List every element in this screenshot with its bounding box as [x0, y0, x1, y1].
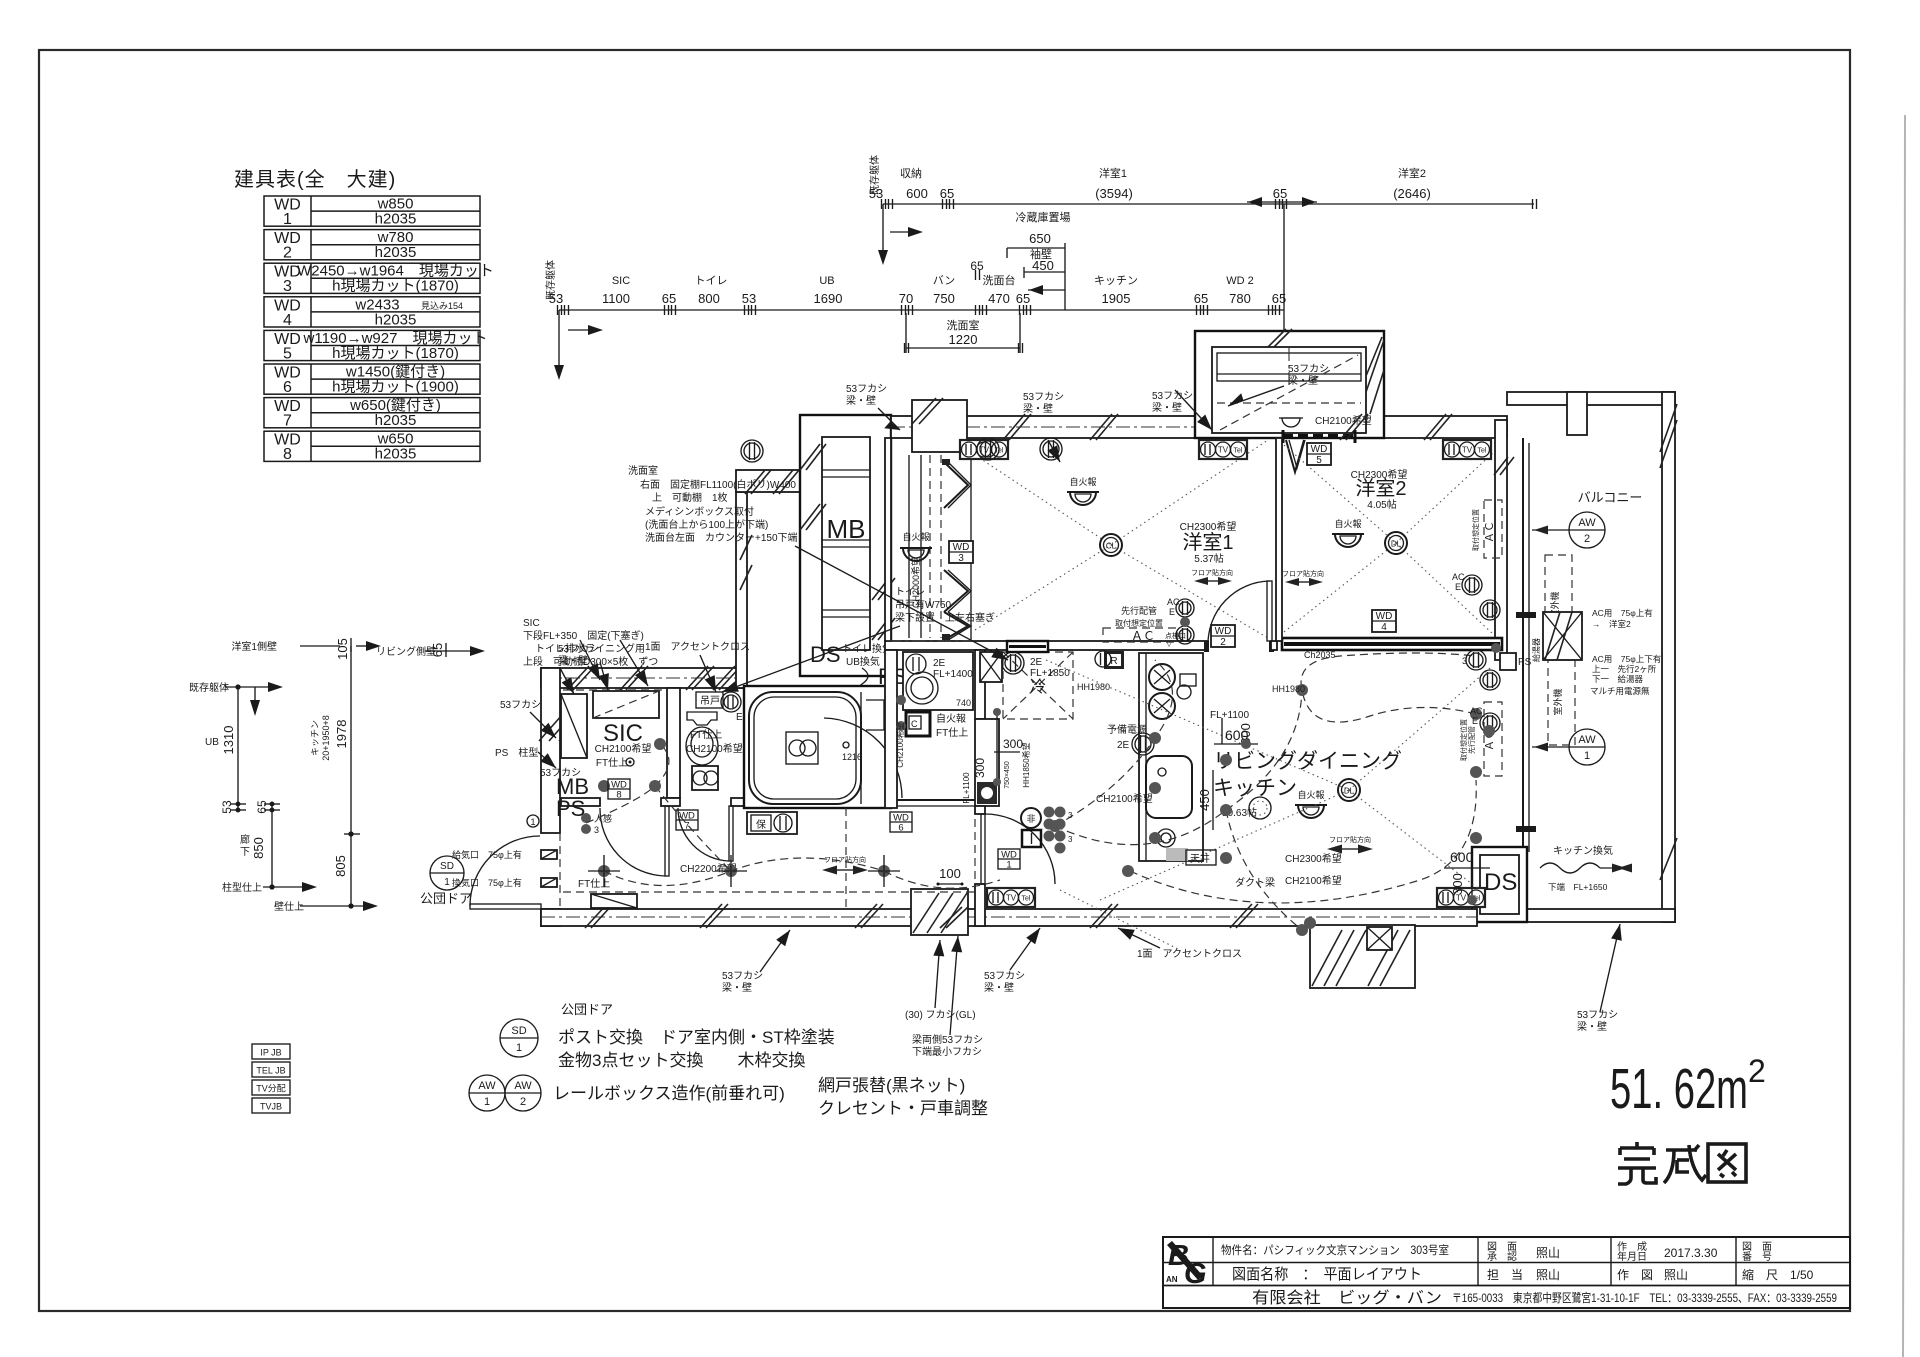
svg-text:〒165-0033 東京都中野区鷺宮1-31-10-1F T: 〒165-0033 東京都中野区鷺宮1-31-10-1F TEL：03-3339… — [1452, 1290, 1837, 1305]
svg-text:予備電源: 予備電源 — [1107, 723, 1147, 736]
svg-text:53フカシ: 53フカシ — [846, 383, 887, 395]
arrow to balcony bottom wall — [1600, 924, 1620, 1012]
svg-text:WD: WD — [953, 542, 970, 553]
WD8 label — [608, 779, 630, 799]
arrow to bump top — [1228, 386, 1284, 406]
svg-text:600: 600 — [906, 186, 928, 201]
arrow — [538, 752, 556, 768]
svg-text:洗面台左面 カウンター+150下端: 洗面台左面 カウンター+150下端 — [645, 531, 798, 544]
svg-text:レールボックス造作(前垂れ可): レールボックス造作(前垂れ可) — [553, 1084, 785, 1103]
svg-text:h2035: h2035 — [375, 446, 417, 463]
svg-text:h2035: h2035 — [375, 244, 417, 261]
svg-text:1216: 1216 — [842, 752, 862, 762]
svg-text:ポスト交換 ドア室内側・ST枠塗装: ポスト交換 ドア室内側・ST枠塗装 — [558, 1027, 835, 1047]
fire alarm — [1335, 534, 1361, 547]
SIC south wall segments — [561, 798, 600, 806]
svg-text:C: C — [911, 719, 918, 729]
svg-text:DL: DL — [1344, 787, 1355, 796]
bath counter/door side — [860, 692, 862, 804]
svg-text:2E: 2E — [1030, 657, 1043, 668]
svg-text:物件名：パシフィック文京マンション 303号室: 物件名：パシフィック文京マンション 303号室 — [1221, 1243, 1449, 1257]
svg-text:3: 3 — [1068, 811, 1073, 820]
leader to toilet hanging door — [722, 626, 900, 692]
svg-text:65: 65 — [940, 186, 954, 201]
svg-text:下一 給湯器: 下一 給湯器 — [1592, 674, 1644, 684]
svg-text:担 当: 担 当 — [1487, 1268, 1523, 1282]
svg-text:FT仕上: FT仕上 — [578, 877, 610, 890]
entry step dashes — [559, 833, 561, 909]
outlet symbol — [977, 438, 999, 460]
svg-text:WD: WD — [1376, 611, 1393, 622]
arrow to bottom wall — [1118, 928, 1160, 948]
svg-text:メディシンボックス取付: メディシンボックス取付 — [645, 505, 754, 518]
svg-text:65: 65 — [1272, 291, 1286, 306]
svg-text:70: 70 — [899, 291, 913, 306]
svg-text:TV: TV — [1462, 446, 1473, 455]
svg-text:梁下設置 上左右塞ぎ: 梁下設置 上左右塞ぎ — [895, 611, 995, 624]
svg-text:保: 保 — [756, 818, 766, 831]
svg-text:バルコニー: バルコニー — [1578, 490, 1643, 505]
svg-text:5.37帖: 5.37帖 — [1194, 552, 1223, 565]
svg-text:AW: AW — [514, 1080, 532, 1092]
svg-text:AC用 75φ上下有: AC用 75φ上下有 — [1592, 654, 1661, 664]
svg-text:450: 450 — [1032, 258, 1054, 273]
AC dashed rect LDK east — [1484, 702, 1502, 776]
outdoor unit dashed boxes — [1545, 555, 1572, 655]
arrow — [1010, 928, 1040, 970]
kitchen lower cabinet at washroom east — [975, 719, 999, 806]
svg-text:公団ドア: 公団ドア — [561, 1002, 613, 1017]
svg-text:AW: AW — [478, 1080, 496, 1092]
outlet symbol — [1176, 626, 1194, 644]
svg-text:65: 65 — [662, 291, 676, 306]
svg-text:TV: TV — [1006, 894, 1017, 903]
svg-text:300: 300 — [1003, 737, 1023, 751]
svg-text:5: 5 — [283, 345, 292, 362]
outlet symbol — [741, 440, 763, 462]
fire alarm — [1070, 492, 1096, 505]
svg-text:65: 65 — [430, 643, 445, 657]
svg-text:E: E — [1472, 716, 1478, 726]
svg-text:TEL JB: TEL JB — [256, 1066, 285, 1076]
svg-text:梁・壁: 梁・壁 — [1152, 401, 1182, 414]
UB door arc into washroom — [824, 718, 902, 798]
balcony top wall — [1507, 392, 1675, 405]
svg-text:AC用 75φ上有: AC用 75φ上有 — [1592, 608, 1653, 618]
svg-text:吊戸有W750: 吊戸有W750 — [895, 598, 952, 611]
svg-text:天井: 天井 — [1190, 852, 1210, 865]
svg-text:7: 7 — [283, 413, 292, 430]
svg-text:梁・壁: 梁・壁 — [722, 981, 752, 994]
svg-text:照山: 照山 — [1536, 1268, 1560, 1282]
yoshitsu1 dotted diagonals — [975, 455, 1111, 545]
svg-text:53フカシ: 53フカシ — [1023, 391, 1064, 403]
svg-text:洗面室: 洗面室 — [628, 464, 658, 477]
svg-text:Ch2035: Ch2035 — [1304, 650, 1336, 660]
svg-text:リビング側壁: リビング側壁 — [376, 645, 436, 658]
svg-text:E: E — [1169, 607, 1175, 617]
svg-text:フロア貼方向: フロア貼方向 — [1329, 835, 1371, 844]
svg-text:FT仕上: FT仕上 — [936, 726, 968, 739]
svg-text:ダクト梁: ダクト梁 — [1235, 876, 1275, 889]
leader to washroom — [795, 546, 1008, 660]
ceiling light CL — [1100, 534, 1122, 556]
svg-text:1100: 1100 — [602, 291, 630, 306]
svg-text:2E: 2E — [1117, 740, 1130, 751]
svg-text:600: 600 — [1450, 849, 1474, 865]
svg-text:洋室1: 洋室1 — [1099, 166, 1127, 180]
WD5 folding door (V symbol) — [1286, 440, 1304, 472]
svg-text:梁・壁: 梁・壁 — [984, 981, 1014, 994]
SIC closet shelf — [593, 691, 659, 718]
svg-text:金物3点セット交換 木枠交換: 金物3点セット交換 木枠交換 — [558, 1051, 805, 1070]
svg-text:給気口 75φ上有: 給気口 75φ上有 — [452, 849, 522, 860]
svg-text:AN: AN — [1166, 1275, 1178, 1284]
kitchen counter — [1139, 653, 1203, 861]
svg-text:承 認: 承 認 — [1487, 1250, 1517, 1263]
divider wall yoshitsu1/yoshitsu2 — [1276, 438, 1282, 641]
svg-text:4: 4 — [1381, 622, 1387, 633]
washbasin counter — [903, 652, 973, 710]
svg-text:h現場カット(1870): h現場カット(1870) — [332, 345, 459, 362]
svg-text:UB: UB — [205, 737, 219, 748]
svg-text:自火報: 自火報 — [936, 712, 966, 725]
R box — [1104, 651, 1124, 669]
svg-text:HH1980: HH1980 — [1077, 682, 1110, 692]
TV/Tel outlet box LDK bottom left — [987, 888, 1035, 907]
svg-text:1690: 1690 — [814, 291, 843, 306]
svg-text:IP JB: IP JB — [260, 1048, 281, 1058]
人感 sensor dots — [581, 813, 591, 823]
svg-text:53フカシ: 53フカシ — [1152, 390, 1193, 402]
JB boxes — [252, 1044, 290, 1059]
MB meter box shaft — [800, 415, 891, 676]
svg-text:3: 3 — [594, 825, 599, 835]
WD5 opening dashed bold — [1283, 434, 1355, 438]
svg-text:WD: WD — [1215, 626, 1232, 637]
WD7 door — [729, 806, 733, 861]
svg-text:SD: SD — [511, 1025, 526, 1037]
svg-text:AC: AC — [1452, 572, 1465, 582]
svg-text:下端 FL+1650: 下端 FL+1650 — [1548, 882, 1608, 892]
svg-text:65: 65 — [255, 800, 269, 814]
svg-text:洋室1側壁: 洋室1側壁 — [231, 640, 277, 653]
svg-text:2: 2 — [1220, 637, 1226, 648]
TV/Tel outlet box LDK bottom right — [1437, 888, 1485, 907]
wall: left exterior wall upper — [541, 668, 560, 833]
svg-text:AW: AW — [1578, 734, 1596, 746]
svg-text:2: 2 — [1584, 533, 1590, 545]
svg-text:冷: 冷 — [1030, 678, 1046, 696]
svg-text:先行配管: 先行配管 — [1467, 726, 1476, 754]
outlet circles along kitchen/LDK — [1095, 651, 1111, 667]
svg-text:洋室2: 洋室2 — [1398, 166, 1426, 180]
svg-text:有限会社 ビッグ・バン: 有限会社 ビッグ・バン — [1252, 1289, 1442, 1307]
svg-text:53: 53 — [742, 291, 756, 306]
AC dashed rect yoshitsu2 east — [1484, 500, 1502, 558]
outlet symbol — [1480, 713, 1500, 733]
SD1 note — [500, 1019, 538, 1057]
title block — [1163, 1237, 1850, 1308]
svg-text:53フカシ: 53フカシ — [1288, 363, 1329, 375]
svg-text:給湯器: 給湯器 — [1531, 638, 1541, 662]
arrow — [950, 936, 958, 1035]
svg-text:53: 53 — [220, 800, 234, 814]
dotted diagonal corridor hint — [1060, 890, 1180, 950]
svg-text:6: 6 — [283, 379, 292, 396]
svg-text:CH2300希望: CH2300希望 — [1285, 852, 1342, 865]
arrow to pillar — [935, 940, 940, 1008]
svg-text:壁仕上: 壁仕上 — [274, 900, 304, 913]
closet bottom dashdot — [887, 640, 975, 642]
svg-text:FT仕上: FT仕上 — [596, 756, 628, 769]
svg-text:冷蔵庫置場: 冷蔵庫置場 — [1016, 210, 1071, 224]
svg-text:1978: 1978 — [334, 720, 349, 749]
WD8 door leaf+arc — [665, 806, 669, 876]
SD1 circle at entrance — [430, 856, 464, 890]
svg-text:梁・壁: 梁・壁 — [558, 654, 588, 667]
svg-text:53フカシ: 53フカシ — [500, 699, 541, 711]
svg-text:SIC: SIC — [603, 720, 643, 747]
svg-text:53フカシ: 53フカシ — [558, 643, 599, 655]
450 dim — [1212, 770, 1214, 830]
svg-text:750×450: 750×450 — [1004, 761, 1011, 789]
bedroom west wall — [885, 438, 891, 641]
svg-text:1: 1 — [484, 1096, 490, 1108]
svg-text:1: 1 — [530, 817, 535, 827]
svg-text:105: 105 — [335, 638, 350, 660]
svg-text:→ 洋室2: → 洋室2 — [1592, 619, 1631, 629]
LDK dotted diagonals — [1046, 660, 1349, 790]
svg-text:FL+1400: FL+1400 — [933, 669, 973, 680]
svg-text:トイレ: トイレ — [695, 275, 728, 287]
svg-text:1: 1 — [1584, 750, 1590, 762]
svg-text:780: 780 — [1229, 291, 1251, 306]
svg-text:柱型仕上: 柱型仕上 — [222, 881, 262, 894]
electrical dots LDK — [1149, 732, 1161, 744]
svg-text:照山: 照山 — [1664, 1268, 1688, 1282]
shoe box in corridor — [591, 894, 637, 908]
svg-text:FL+1850: FL+1850 — [1030, 668, 1070, 679]
svg-text:室外機: 室外機 — [1552, 688, 1563, 715]
DS shaft bottom right — [1472, 847, 1527, 922]
extra hatches on walls — [620, 666, 642, 690]
svg-text:SIC: SIC — [523, 618, 540, 629]
svg-text:470: 470 — [988, 291, 1010, 306]
svg-text:53フカシ: 53フカシ — [984, 970, 1025, 982]
svg-text:梁・壁: 梁・壁 — [846, 394, 876, 407]
svg-text:TV: TV — [1218, 446, 1229, 455]
crossed PS box at washroom NE — [980, 652, 1002, 682]
svg-text:洋室2: 洋室2 — [1355, 477, 1406, 500]
svg-text:Tel: Tel — [1022, 896, 1031, 903]
outlet symbol — [1466, 650, 1486, 670]
svg-text:PS 柱型: PS 柱型 — [495, 746, 538, 759]
svg-text:4.05帖: 4.05帖 — [1367, 498, 1396, 511]
WD1 door corridor to LDK — [975, 806, 985, 814]
wall: bedroom block top wall — [891, 416, 1195, 438]
stove burners — [1149, 664, 1175, 690]
svg-text:バン: バン — [933, 274, 956, 287]
AW2 circle — [1569, 512, 1605, 548]
svg-text:作 図: 作 図 — [1617, 1268, 1653, 1282]
corridor dashed boundary — [563, 891, 975, 893]
svg-text:UB: UB — [819, 275, 834, 287]
TV/Tel outlet box yoshitsu1 right — [1199, 440, 1247, 459]
washroom south sliding door WD6 — [897, 799, 975, 801]
SIC dashed ceiling line — [563, 689, 665, 691]
svg-text:750: 750 — [933, 291, 955, 306]
ceiling label box — [1166, 848, 1188, 861]
corridor lights — [598, 865, 610, 877]
svg-text:キッチン換気: キッチン換気 — [1553, 844, 1613, 857]
svg-text:HH1850希望: HH1850希望 — [1021, 742, 1031, 787]
svg-text:E: E — [736, 712, 743, 723]
WD6 label — [890, 812, 912, 832]
sode-kabe wing wall stub at kitchen entry — [1007, 641, 1048, 652]
main bottom exterior wall — [541, 909, 1477, 926]
svg-text:フロア貼方向: フロア貼方向 — [1191, 568, 1233, 577]
svg-text:3: 3 — [283, 278, 292, 295]
svg-text:CH2100希望: CH2100希望 — [686, 742, 743, 755]
bottom protrusion below DS duct — [1310, 925, 1415, 988]
TV/Tel outlet box yoshitsu1 left — [960, 440, 1008, 459]
left dimension block — [225, 638, 485, 911]
svg-text:650: 650 — [1029, 231, 1051, 246]
svg-text:Tel: Tel — [1234, 448, 1243, 455]
outlet symbol — [1132, 733, 1154, 755]
svg-text:DS: DS — [810, 642, 841, 667]
svg-text:100: 100 — [939, 866, 961, 881]
svg-text:1905: 1905 — [1102, 291, 1131, 306]
ceiling light DL — [1385, 532, 1407, 554]
svg-text:53フカシ: 53フカシ — [722, 970, 763, 982]
svg-text:洋室1: 洋室1 — [1182, 531, 1233, 554]
svg-text:洗面室: 洗面室 — [947, 318, 980, 332]
svg-text:キッチン: キッチン — [1094, 274, 1138, 287]
svg-text:1: 1 — [283, 211, 292, 228]
divider wall bedrooms vs LDK/washroom — [885, 641, 1208, 650]
svg-text:CH2100希望: CH2100希望 — [1096, 792, 1153, 805]
SIC tall shelf (hatched) — [561, 694, 587, 758]
arrow to top wall — [1048, 440, 1060, 462]
balcony pillar — [1567, 392, 1587, 435]
svg-text:WD: WD — [1311, 444, 1328, 455]
yoshitsu1 closet: pole and shelf lines — [908, 455, 910, 638]
wall: DS/PS shaft west wall — [736, 492, 747, 688]
svg-text:梁・壁: 梁・壁 — [1577, 1020, 1607, 1033]
arrow to closet bump — [1175, 390, 1212, 430]
oshiire closet bump at top (Yoshitsu2 closet) — [1195, 331, 1384, 438]
冷蔵庫置場 650 — [1007, 243, 1065, 310]
svg-text:下端最小フカシ: 下端最小フカシ — [912, 1045, 982, 1058]
svg-text:SD: SD — [440, 861, 454, 872]
washer box C — [906, 712, 930, 736]
balcony east wall — [1662, 392, 1675, 922]
pillar bump above closet — [912, 400, 967, 452]
svg-text:自火報: 自火報 — [1297, 789, 1324, 800]
washroom west wall — [885, 650, 897, 808]
left wall vent boxes + labels — [541, 850, 557, 859]
svg-text:キッチン: キッチン — [310, 720, 320, 756]
svg-text:800: 800 — [698, 291, 720, 306]
svg-text:公団ドア: 公団ドア — [420, 891, 472, 906]
svg-text:上一 先行2ヶ所: 上一 先行2ヶ所 — [1592, 664, 1657, 674]
toilet washlet box — [692, 766, 718, 790]
big title 完成図 (drawn strokes) — [1618, 1142, 1746, 1184]
svg-text:見込み154: 見込み154 — [421, 301, 463, 311]
svg-text:1: 1 — [516, 1042, 522, 1054]
emergency circle + I box — [1021, 808, 1041, 828]
outlet symbol — [1480, 670, 1500, 690]
svg-text:51. 62m: 51. 62m — [1610, 1057, 1748, 1121]
washroom east wall — [975, 650, 985, 719]
svg-text:吊戸: 吊戸 — [700, 695, 720, 707]
svg-text:450: 450 — [1197, 789, 1212, 811]
svg-text:PS: PS — [556, 796, 585, 821]
svg-text:PS: PS — [1518, 657, 1532, 668]
svg-text:1面 アクセントクロス: 1面 アクセントクロス — [1137, 948, 1242, 960]
svg-text:65: 65 — [970, 259, 984, 273]
svg-text:年月日: 年月日 — [1617, 1250, 1647, 1263]
bathtub — [749, 692, 861, 804]
fittings table — [264, 196, 480, 461]
svg-text:取付想定位置: 取付想定位置 — [1115, 618, 1163, 628]
svg-text:洗面台: 洗面台 — [983, 273, 1016, 287]
洗面室 1220 sub dimension — [905, 313, 1023, 353]
hanger zigzags — [944, 462, 968, 508]
svg-text:▽: ▽ — [1166, 639, 1173, 648]
BG logo — [1166, 1240, 1207, 1290]
svg-text:CH2100希望: CH2100希望 — [595, 742, 652, 755]
svg-text:ＡＣ: ＡＣ — [1484, 521, 1496, 543]
svg-text:300: 300 — [1450, 873, 1465, 895]
svg-text:5: 5 — [1316, 455, 1322, 466]
wiring dashed curves — [604, 858, 884, 886]
svg-text:照山: 照山 — [1536, 1246, 1560, 1260]
svg-text:2: 2 — [520, 1096, 526, 1108]
leader small — [560, 668, 574, 694]
svg-text:キッチン: キッチン — [1213, 777, 1297, 800]
svg-text:E: E — [1455, 582, 1461, 592]
outlet symbol — [1480, 600, 1500, 620]
PS small box LDK NE — [1500, 653, 1516, 670]
SIC room east wall — [667, 688, 680, 798]
svg-text:(3594): (3594) — [1095, 186, 1133, 201]
outlet symbol — [1462, 575, 1482, 595]
svg-text:MB: MB — [827, 514, 866, 544]
svg-text:人感: 人感 — [594, 813, 612, 824]
svg-text:(洗面台上から100上が下端): (洗面台上から100上が下端) — [645, 518, 768, 531]
svg-text:8: 8 — [283, 446, 292, 463]
svg-text:WD 2: WD 2 — [1226, 275, 1254, 287]
svg-text:4: 4 — [283, 312, 292, 329]
svg-text:DS: DS — [1484, 869, 1517, 896]
svg-text:トイレ: トイレ — [895, 587, 925, 598]
svg-text:1面 アクセントクロス: 1面 アクセントクロス — [645, 641, 750, 653]
svg-text:梁両側53フカシ: 梁両側53フカシ — [912, 1033, 983, 1046]
AW1 circle — [1569, 729, 1605, 765]
arrow to bottom wall — [760, 930, 790, 972]
svg-text:FL+1100: FL+1100 — [962, 772, 971, 804]
svg-text:梁・壁: 梁・壁 — [1023, 402, 1053, 415]
entrance kodan door arc (swings outward) — [470, 904, 541, 909]
svg-text:2017.3.30: 2017.3.30 — [1664, 1246, 1718, 1260]
top dimension line 2 (SIC/toilet/UB/kitchen run) — [554, 305, 1284, 380]
svg-text:DL: DL — [1391, 540, 1402, 549]
WD2 door — [1267, 581, 1272, 641]
wall: left exterior wall lower stub — [541, 909, 560, 926]
